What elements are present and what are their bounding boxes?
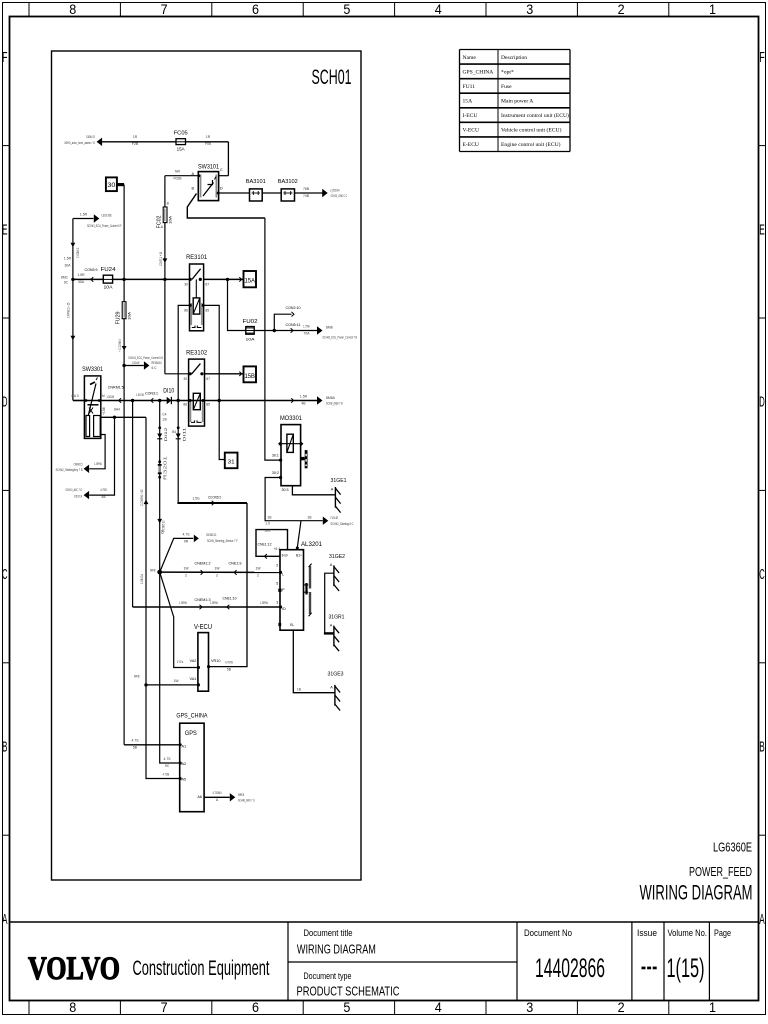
svg-text:30H3_auto_horn_alarm / G: 30H3_auto_horn_alarm / G — [64, 141, 95, 145]
svg-text:L: L — [282, 573, 284, 577]
ground node box 31 — [225, 453, 238, 469]
svg-text:A5: A5 — [182, 778, 187, 782]
wire: x159.7 to star — [159, 401, 161, 573]
svg-text:4: 4 — [435, 1000, 442, 1015]
ground 31GR1 — [333, 626, 335, 647]
wire: 30:3 to ground — [292, 486, 335, 495]
wire: A1 feed — [124, 744, 180, 746]
svg-text:WIRING DIAGRAM: WIRING DIAGRAM — [640, 882, 753, 905]
svg-text:15B: 15B — [244, 373, 255, 380]
wire: FU29 down to GPS A1 — [123, 319, 125, 745]
svg-text:A6: A6 — [101, 495, 105, 499]
svg-text:1.5R: 1.5R — [80, 212, 88, 216]
svg-text:8: 8 — [69, 1000, 76, 1015]
svg-text:30: 30 — [183, 377, 187, 381]
MO3301 side connector — [301, 457, 305, 460]
svg-text:2: 2 — [185, 573, 187, 577]
wire: branch arrow RE3563 — [124, 365, 144, 367]
svg-text:Volume No.: Volume No. — [668, 928, 708, 939]
junction dot x159 — [158, 399, 161, 402]
svg-text:Construction Equipment: Construction Equipment — [133, 957, 270, 980]
coil terminal diamonds — [278, 442, 282, 446]
coil pin dot 86 — [189, 304, 192, 307]
wire: FC02 to bus — [164, 223, 166, 280]
svg-text:RE3563/J: RE3563/J — [152, 361, 162, 365]
svg-text:POWER_FEED: POWER_FEED — [689, 864, 752, 879]
svg-text:A: A — [759, 912, 765, 928]
connector chevron CCON5:2 — [212, 501, 215, 506]
breaker BA3102 — [281, 189, 294, 201]
diode DI12 — [158, 426, 161, 429]
connector chevron right — [291, 398, 294, 403]
svg-text:2: 2 — [618, 2, 625, 17]
svg-text:Document No: Document No — [524, 928, 572, 939]
wire: star to steering arrow — [160, 538, 194, 572]
svg-text:9F8: 9F8 — [150, 568, 156, 572]
svg-text:VR10: VR10 — [211, 659, 221, 663]
flow arrow — [122, 346, 127, 351]
svg-text:1.9: 1.9 — [265, 522, 270, 526]
RE3102 contact — [189, 372, 192, 375]
wire: RE3102 87 to 15B — [205, 373, 244, 375]
svg-text:A: A — [2, 912, 8, 928]
wire: coil 86 feed — [178, 305, 190, 400]
svg-text:15A: 15A — [463, 99, 473, 105]
coil pin dot 85 — [202, 304, 205, 307]
svg-text:GA 3: GA 3 — [71, 394, 78, 398]
svg-text:9F8: 9F8 — [134, 674, 140, 678]
svg-text:C: C — [220, 168, 223, 172]
wire: SW3101 A drop — [164, 176, 166, 207]
svg-text:5: 5 — [343, 2, 350, 17]
svg-text:6: 6 — [252, 1000, 259, 1015]
diode DI11 — [177, 426, 180, 429]
wire: star to VA2 — [160, 572, 198, 667]
svg-text:5: 5 — [276, 582, 278, 586]
svg-text:1B: 1B — [267, 515, 272, 519]
pin dot ID — [279, 605, 282, 608]
svg-text:87: 87 — [206, 377, 210, 381]
svg-text:PRODUCT SCHEMATIC: PRODUCT SCHEMATIC — [297, 985, 400, 999]
svg-text:9R3: 9R3 — [238, 793, 244, 797]
junction dot RE branch — [122, 364, 125, 367]
svg-text:SCH01: SCH01 — [312, 66, 352, 89]
svg-text:E-ECU: E-ECU — [463, 142, 479, 148]
svg-text:2: 2 — [276, 564, 278, 568]
svg-text:30:3: 30:3 — [282, 488, 289, 492]
AL3201 capacitor plates — [305, 583, 307, 595]
svg-text:D: D — [220, 187, 223, 191]
RE3101 base mark — [192, 326, 195, 328]
pin dot A — [197, 174, 200, 177]
svg-text:FU29: FU29 — [115, 311, 121, 324]
svg-text:RE3101: RE3101 — [186, 254, 208, 261]
svg-text:+ C CON6 4: + C CON6 4 — [118, 339, 122, 352]
svg-text:Name: Name — [463, 55, 477, 61]
connector chevron CNEM1:2 — [201, 570, 204, 575]
off-page arrow 8M8A — [317, 396, 323, 404]
ground bracket wire — [325, 573, 334, 633]
svg-text:15A: 15A — [244, 278, 255, 285]
svg-text:10A: 10A — [104, 285, 113, 290]
svg-text:F2B: F2B — [132, 142, 139, 146]
wire: A6 to gnd arrow — [204, 796, 230, 798]
svg-text:CONT-1 +15: CONT-1 +15 — [159, 252, 163, 266]
svg-text:C CNRM1 +15: C CNRM1 +15 — [140, 489, 144, 506]
svg-text:15A: 15A — [177, 147, 185, 152]
RE3102 base mark — [191, 420, 195, 422]
junction star — [157, 570, 162, 575]
svg-text:Main power A: Main power A — [501, 99, 533, 105]
svg-text:1'O's: 1'O's — [177, 660, 184, 664]
svg-text:CON3:1: CON3:1 — [145, 391, 158, 395]
SW3301 slider channels — [86, 416, 90, 437]
svg-text:E5C/C4: E5C/C4 — [74, 494, 82, 498]
svg-text:30:1: 30:1 — [272, 453, 279, 457]
svg-text:MO3301: MO3301 — [280, 416, 303, 422]
svg-text:E: E — [759, 222, 765, 238]
svg-text:1.5R: 1.5R — [64, 257, 72, 261]
svg-text:B4: B4 — [172, 430, 176, 434]
svg-text:8M8: 8M8 — [326, 325, 333, 329]
ignition bus DI10 — [73, 400, 317, 402]
svg-text:3: 3 — [526, 1000, 533, 1015]
svg-text:BA3102: BA3102 — [278, 179, 298, 185]
V-ECU connector — [198, 633, 209, 692]
svg-text:31: 31 — [228, 459, 235, 465]
wire: star down to GPS A2 — [160, 572, 180, 763]
svg-text:BA3101: BA3101 — [246, 179, 266, 185]
svg-text:F02B: F02B — [173, 177, 182, 181]
svg-text:RE3102: RE3102 — [186, 349, 208, 356]
svg-text:A: A — [330, 623, 333, 627]
svg-text:4.7S: 4.7S — [164, 757, 172, 761]
wire: C pin up — [219, 175, 229, 177]
svg-text:1(15): 1(15) — [667, 953, 705, 983]
svg-text:FC05: FC05 — [174, 131, 189, 137]
junction dot CON2 branch — [273, 329, 276, 332]
svg-text:NR: NR — [175, 170, 180, 174]
svg-text:Vehicle control unit (ECU): Vehicle control unit (ECU) — [501, 127, 562, 134]
svg-text:1.75W: 1.75W — [303, 324, 310, 328]
wire: coil 85 to DI10 bus — [204, 305, 220, 400]
svg-text:B1+: B1+ — [296, 554, 302, 558]
branch to CON2:10 — [274, 314, 291, 330]
svg-text:D: D — [759, 395, 765, 411]
svg-text:I-ECU: I-ECU — [463, 113, 478, 119]
svg-text:31GE2: 31GE2 — [329, 554, 345, 560]
svg-text:A1: A1 — [182, 745, 187, 749]
svg-text:+15B: +15B — [102, 406, 106, 415]
RE3102 coil — [193, 393, 200, 409]
svg-text:D: D — [2, 395, 7, 411]
CNEM1:3 bus labels — [200, 605, 203, 610]
svg-text:5B: 5B — [133, 746, 138, 750]
svg-text:FU02: FU02 — [243, 319, 258, 325]
fuse FU29 — [122, 302, 126, 319]
pin dot A1 — [179, 743, 182, 746]
battery node box 30 — [106, 177, 117, 191]
fuse FC05 — [176, 139, 186, 145]
main power A node 15A — [244, 271, 257, 287]
wire: x132.6 to CNEM1:3 bus — [132, 401, 134, 608]
off-page arrow ECU power B — [317, 326, 323, 334]
wire: 30 box down to bus — [123, 185, 125, 280]
svg-text:C8: C8 — [161, 530, 165, 534]
pad bottom-left — [278, 623, 281, 626]
svg-text:4.7S: 4.7S — [183, 532, 191, 536]
wire: FC02 line to RE3102 30 — [164, 279, 166, 373]
svg-text:85: 85 — [205, 309, 209, 313]
svg-text:1W: 1W — [183, 566, 189, 570]
off-page arrow GND CC — [322, 189, 328, 197]
relay RE3101 — [190, 264, 204, 331]
flow arrow down — [71, 243, 76, 248]
connector chevron left — [119, 398, 122, 403]
svg-text:SW3301: SW3301 — [82, 366, 104, 373]
svg-text:M: M — [102, 394, 105, 398]
svg-text:10A: 10A — [168, 215, 172, 224]
fuse FU02 — [246, 327, 254, 335]
svg-text:Fuse: Fuse — [501, 84, 512, 90]
relay RE3102 — [189, 359, 205, 426]
svg-text:DI11: DI11 — [181, 426, 186, 441]
wire: 30 line down — [123, 279, 125, 301]
svg-text:74B: 74B — [303, 194, 310, 198]
svg-text:10A: 10A — [127, 311, 131, 320]
diode DI10 — [167, 397, 172, 404]
chevron CNE1:12 — [264, 554, 267, 559]
junction dot 30-line — [122, 278, 125, 281]
junction dot x178 — [177, 399, 180, 402]
svg-text:Engine control unit (ECU): Engine control unit (ECU) — [501, 141, 561, 148]
ground 31GE2 — [333, 565, 335, 586]
svg-text:3: 3 — [276, 600, 278, 604]
svg-text:1.5G/W: 1.5G/W — [107, 395, 115, 399]
flow arrow2 — [157, 519, 162, 524]
svg-text:A6: A6 — [197, 795, 202, 799]
svg-text:VA2: VA2 — [189, 659, 196, 663]
main power bus — [73, 278, 244, 280]
wire: horn feed to FC05 — [101, 141, 228, 143]
svg-text:VA1: VA1 — [189, 677, 196, 681]
svg-text:10A: 10A — [246, 337, 255, 342]
svg-text:CON5:9: CON5:9 — [85, 268, 98, 272]
SW3301 bus through — [84, 400, 100, 402]
connector chevron CON5:9 — [91, 277, 94, 282]
svg-text:ID: ID — [282, 607, 286, 611]
svg-text:CNE1:9: CNE1:9 — [229, 560, 243, 565]
svg-text:CON5:11: CON5:11 — [286, 322, 301, 327]
svg-text:86: 86 — [184, 309, 188, 313]
ignition aux bus y=417.3 — [101, 416, 146, 418]
wire: x219 to 31 box — [219, 401, 225, 460]
svg-text:6: 6 — [252, 2, 259, 17]
svg-text:1B: 1B — [307, 515, 312, 519]
svg-text:SCH48_GND 7 G: SCH48_GND 7 G — [238, 798, 255, 802]
svg-text:3: 3 — [526, 2, 533, 17]
junction dot — [71, 278, 74, 281]
svg-text:1.5G: 1.5G — [192, 497, 200, 501]
junction dot x219 — [218, 399, 221, 402]
svg-text:WIRING DIAGRAM: WIRING DIAGRAM — [297, 943, 376, 957]
svg-text:LED3.06E: LED3.06E — [102, 214, 113, 218]
svg-text:GPS_CHINA: GPS_CHINA — [463, 69, 494, 75]
pin dot L — [279, 571, 282, 574]
svg-text:CN3/4E10: CN3/4E10 — [206, 533, 216, 537]
svg-text:87: 87 — [205, 283, 209, 287]
wire: down to MO3301 30:1 — [265, 218, 281, 460]
svg-text:85: 85 — [206, 402, 210, 406]
pin dot D — [217, 192, 220, 195]
svg-text:Issue: Issue — [637, 928, 657, 939]
svg-text:CNE1:12: CNE1:12 — [258, 543, 272, 547]
svg-text:FU24: FU24 — [101, 267, 117, 273]
svg-text:30: 30 — [184, 283, 188, 287]
svg-text:SCH42_Starting 6 C: SCH42_Starting 6 C — [331, 522, 354, 526]
svg-text:GPS_CHINA: GPS_CHINA — [176, 713, 207, 720]
svg-text:C CON6 3: C CON6 3 — [76, 248, 80, 258]
wire: branch to key arrow — [89, 417, 114, 495]
svg-text:1.5R/W: 1.5R/W — [260, 601, 268, 605]
svg-text:76B: 76B — [303, 187, 310, 191]
svg-text:A: A — [330, 685, 333, 689]
svg-text:SW3101: SW3101 — [198, 163, 220, 170]
svg-text:1.5G/W: 1.5G/W — [136, 393, 144, 397]
svg-text:SCH43_ECU_Power_Current 6 F: SCH43_ECU_Power_Current 6 F — [87, 224, 122, 228]
svg-text:CNRM1:5: CNRM1:5 — [108, 385, 124, 389]
svg-text:A: A — [331, 487, 334, 491]
pin dot 30:2 — [279, 476, 282, 479]
svg-text:7: 7 — [161, 1000, 168, 1015]
svg-text:4.7S/W: 4.7S/W — [225, 660, 233, 664]
main power B node 15B — [244, 366, 257, 382]
RE3101 actuator link — [195, 279, 197, 298]
GPS box — [180, 723, 204, 812]
svg-text:SCH43_ECU_Power_Current 6 B: SCH43_ECU_Power_Current 6 B — [128, 356, 163, 360]
svg-text:C606 /G: C606 /G — [86, 135, 95, 139]
schematic sheet SCH01 boundary — [52, 51, 362, 880]
switch SW3301 — [84, 376, 100, 439]
svg-text:CON2:10: CON2:10 — [286, 305, 302, 310]
svg-text:1W: 1W — [173, 679, 179, 683]
svg-text:B: B — [2, 740, 8, 756]
svg-text:9C: 9C — [165, 764, 170, 768]
svg-text:CNRM1:1 +15: CNRM1:1 +15 — [66, 303, 70, 318]
svg-text:CNRM1:5: CNRM1:5 — [74, 462, 83, 466]
svg-text:1: 1 — [709, 1000, 716, 1015]
svg-text:CCON5:2: CCON5:2 — [208, 494, 221, 499]
junction dot VA1 — [144, 683, 147, 686]
svg-text:SCH8_(M)8 7 B: SCH8_(M)8 7 B — [326, 402, 343, 406]
ground 31GE1 — [334, 487, 336, 508]
svg-text:VOLVO: VOLVO — [28, 951, 120, 987]
svg-text:SCH8_Steering_Sensor 7 F: SCH8_Steering_Sensor 7 F — [207, 539, 238, 543]
off-page arrow ECU power F — [73, 218, 94, 220]
ground 31GE3 — [334, 685, 336, 706]
svg-text:CNEM1:2: CNEM1:2 — [195, 560, 212, 565]
svg-text:1R: 1R — [133, 135, 138, 139]
stub from 30 box — [117, 183, 124, 186]
svg-text:1.5B GA: 1.5B GA — [140, 573, 144, 584]
svg-text:5: 5 — [343, 1000, 350, 1015]
wire: FC05 line corner down to SW3101 C — [227, 142, 229, 176]
wire: vertical to main bus — [72, 219, 74, 401]
svg-text:*opt*: *opt* — [501, 69, 514, 75]
svg-text:70A: 70A — [303, 331, 310, 335]
svg-text:V-ECU: V-ECU — [463, 128, 480, 134]
svg-text:31GE3: 31GE3 — [328, 672, 344, 678]
wire: x178.2 VR10 feed — [177, 401, 179, 504]
flow arrow down2 — [71, 336, 76, 341]
svg-text:1W: 1W — [214, 566, 220, 570]
wire: left stub — [73, 400, 84, 402]
svg-text:DI10: DI10 — [163, 389, 175, 395]
svg-text:1R: 1R — [206, 135, 211, 139]
pin dot A2 — [179, 762, 182, 765]
contact tick — [239, 277, 241, 281]
wire: A pin to FC02 drop — [165, 175, 198, 177]
svg-text:8A4: 8A4 — [114, 407, 120, 411]
SW3301 lever — [86, 384, 96, 425]
thick gnd bar — [324, 632, 335, 634]
svg-text:3B1: 3B1 — [264, 529, 270, 533]
svg-text:C: C — [2, 567, 7, 583]
svg-text:8: 8 — [69, 2, 76, 17]
svg-text:FU11: FU11 — [463, 84, 476, 90]
pin dot VR10 — [207, 665, 210, 668]
junction dot x114.5 — [113, 416, 116, 419]
svg-text:A: A — [330, 563, 333, 567]
svg-text:Page: Page — [714, 928, 731, 939]
flow arrow — [163, 258, 168, 263]
svg-text:2: 2 — [257, 573, 259, 577]
alternator AL3201 — [280, 550, 304, 631]
wire: B- down to ground — [293, 630, 334, 693]
svg-text:R3201: R3201 — [163, 455, 168, 480]
wire: bus branch to FU02 — [228, 279, 246, 330]
svg-text:14402866: 14402866 — [535, 953, 605, 983]
svg-text:CNE1:10: CNE1:10 — [223, 595, 238, 600]
svg-text:30A: 30A — [64, 264, 71, 268]
SW3101 switch lever — [203, 183, 214, 197]
svg-text:1.5R/W: 1.5R/W — [210, 601, 218, 605]
wire: aux bus drop to GPS A5 — [146, 417, 180, 778]
svg-text:FU3.4E: FU3.4E — [331, 516, 339, 520]
wire: FU02 out — [254, 330, 317, 332]
svg-text:30: 30 — [107, 182, 116, 189]
wire: SW3301 bottom out — [89, 435, 105, 469]
svg-text:1.5R: 1.5R — [300, 394, 308, 398]
off-page arrow to horn alarm — [97, 138, 103, 146]
svg-text:1.5R/W: 1.5R/W — [94, 462, 102, 466]
svg-text:1.5G/W: 1.5G/W — [132, 361, 140, 365]
svg-text:F: F — [759, 50, 765, 66]
svg-text:1.5R/W: 1.5R/W — [179, 601, 187, 605]
svg-text:1.5R: 1.5R — [77, 273, 85, 277]
pad P — [278, 589, 281, 592]
svg-text:6 C: 6 C — [152, 366, 158, 370]
svg-text:B: B — [759, 740, 765, 756]
wire: 30:2 to starter arrow — [265, 478, 323, 521]
svg-text:SCH20_GND C C: SCH20_GND C C — [331, 194, 348, 198]
junction dot x132 — [131, 399, 134, 402]
svg-text:4B: 4B — [301, 401, 306, 405]
CNEM1:2 bus to AL3201 L — [160, 571, 280, 573]
junction dot FU02 branch — [226, 278, 229, 281]
svg-text:F: F — [2, 50, 8, 66]
wire BA3101-BA3102 — [262, 192, 281, 194]
